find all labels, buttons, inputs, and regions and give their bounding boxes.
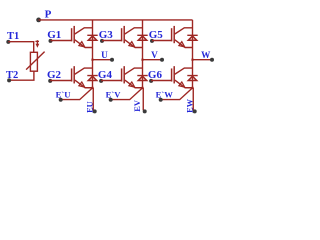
wire emitter V down [142,88,144,110]
wire gate G5 [152,40,172,42]
gate label G2 [47,69,62,81]
wire phase W lower leg vertical [192,60,194,88]
node EW power emitter terminal [185,98,196,113]
junction phase W midpoint [191,59,193,61]
transistor G1 [72,26,93,48]
wire auxiliary emitter E`V [111,88,143,100]
gate label G1 [47,29,61,41]
node V output terminal [151,50,164,62]
node E`U terminal [56,89,71,101]
wire P bus top rail [39,19,193,21]
freewheeling diode of G3 [137,35,147,40]
wire emitter W down [192,88,194,110]
wire emitter U down [92,88,94,110]
svg-text:W: W [201,50,211,60]
wire gate G4 [101,80,122,82]
freewheeling diode of G1 [87,35,97,40]
transistor G4 [122,66,143,88]
node gate terminal G1 [49,39,53,43]
node EU power emitter terminal [85,101,96,113]
svg-text:EU: EU [85,101,94,113]
junction emitter V [141,87,143,89]
gate label G5 [149,29,164,41]
node P terminal [36,8,51,22]
transistor G6 [172,66,193,88]
wire phase V lower leg vertical [142,60,144,88]
node gate terminal G2 [48,79,52,83]
node W output terminal [201,50,214,62]
gate label G4 [98,69,113,81]
node E`W terminal [156,89,174,101]
svg-text:E`V: E`V [106,89,122,99]
wire phase U upper leg vertical [92,20,94,60]
junction phase U midpoint [91,59,93,61]
wire gate G6 [151,80,172,82]
freewheeling diode of G6 [187,76,197,81]
svg-text:V: V [151,50,158,60]
wire gate G1 [51,40,73,42]
junction phase V midpoint [141,59,143,61]
node gate terminal G4 [99,79,103,83]
svg-text:T2: T2 [6,70,18,81]
node U output terminal [101,50,114,62]
svg-text:EW: EW [185,98,194,113]
freewheeling diode of G2 [87,76,97,81]
node gate terminal G3 [100,39,104,43]
gate label G3 [99,29,114,41]
thermistor RT body [26,40,44,71]
wire phase W upper leg vertical [192,20,194,60]
svg-text:U: U [101,50,108,60]
wire gate G2 [50,80,72,82]
wire phase output W [193,59,213,61]
svg-text:E`W: E`W [156,89,174,99]
node T1 terminal [6,31,19,44]
node T2 terminal [6,70,18,82]
wire thermistor to T2 [9,71,34,80]
svg-text:E`U: E`U [56,89,71,99]
svg-text:P: P [45,8,52,20]
junction emitter W [191,87,193,89]
freewheeling diode of G4 [137,76,147,81]
junction emitter U [91,87,93,89]
wire auxiliary emitter E`W [161,88,193,100]
transistor G5 [172,26,193,48]
transistor G3 [122,26,143,48]
svg-text:T1: T1 [7,31,19,42]
node gate terminal G6 [149,79,153,83]
wire phase output V [143,59,163,61]
gate label G6 [148,69,163,81]
wire T1 to thermistor [8,42,33,53]
wire phase output U [93,59,113,61]
transistor G2 [72,66,93,88]
wire gate G3 [102,40,122,42]
svg-text:EV: EV [133,100,142,112]
freewheeling diode of G5 [187,35,197,40]
node gate terminal G5 [150,39,154,43]
wire phase U lower leg vertical [92,60,94,88]
wire auxiliary emitter E`U [61,88,93,100]
node E`V terminal [106,89,122,101]
node EV power emitter terminal [133,100,147,113]
wire phase V upper leg vertical [142,20,144,60]
